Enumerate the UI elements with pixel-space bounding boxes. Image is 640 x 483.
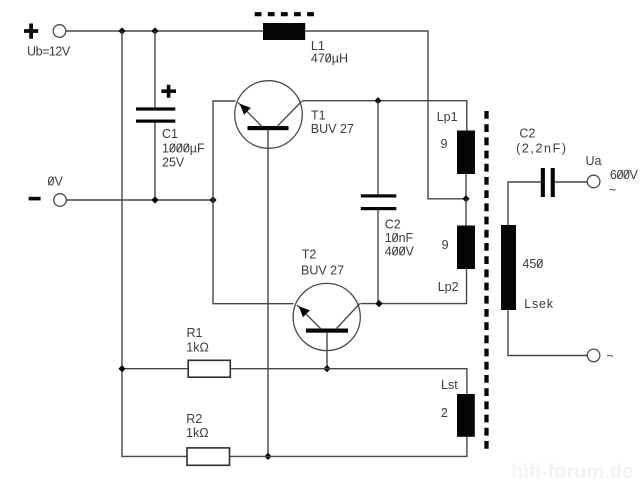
svg-text:9: 9 (441, 137, 448, 151)
svg-text:Ua: Ua (586, 154, 602, 168)
junction C1 / +rail (151, 27, 158, 34)
svg-text:hifi-forum.de: hifi-forum.de (511, 461, 633, 483)
resistor R1 (188, 360, 230, 377)
svg-text:Ub=12V: Ub=12V (27, 45, 71, 59)
svg-text:BUV 27: BUV 27 (311, 122, 354, 136)
capacitor C2 bottom lead (377, 210, 379, 304)
junction center tap (462, 195, 469, 202)
svg-text:2: 2 (441, 406, 448, 420)
wire top rail (66, 30, 263, 32)
wire Lp2 to T2 collector (360, 269, 466, 304)
junction T1 base / R2 rail (264, 453, 271, 460)
junction emitter rail / 0V rail (209, 196, 216, 203)
capacitor C1 plates (136, 107, 175, 110)
junction T2 collector / C2 (375, 300, 382, 307)
transformer winding Lsek (501, 225, 516, 310)
resistor R2 (187, 448, 230, 465)
svg-text:C1: C1 (162, 127, 178, 141)
junction T2 base / R1 wire (323, 365, 330, 372)
svg-text:Lst: Lst (441, 378, 458, 392)
capacitor C1 top lead (154, 31, 156, 108)
wire Lsek bottom lead (508, 310, 587, 356)
minus symbol (29, 197, 41, 201)
svg-text:C2: C2 (385, 218, 401, 232)
terminal 0V (54, 194, 67, 207)
capacitor C2 top lead (377, 101, 379, 195)
svg-text:R1: R1 (187, 326, 203, 340)
capacitor C1 bottom lead (154, 123, 156, 201)
transformer core (484, 111, 488, 452)
capacitor C2 plates (361, 194, 397, 197)
transistor T1 (235, 81, 303, 149)
svg-text:400V: 400V (385, 245, 415, 259)
wire bias rail (122, 31, 188, 456)
terminal Ua (587, 175, 600, 188)
wire Lsek top lead (508, 182, 541, 225)
wire center tap to Lp2 (465, 199, 467, 226)
wire L1 to transformer center tap (305, 31, 466, 199)
wire 0V rail (67, 199, 214, 201)
transformer winding Lst (457, 394, 475, 437)
inductor L1 body (263, 23, 305, 40)
wire Lp1 to center tap (465, 174, 467, 199)
svg-text:C2: C2 (519, 127, 535, 141)
svg-text:Lp1: Lp1 (437, 110, 458, 124)
terminal secondary lower (587, 349, 600, 362)
wire emitter rail (213, 101, 294, 304)
capacitor C2 secondary plates (541, 168, 545, 197)
svg-text:600V: 600V (610, 168, 639, 182)
svg-text:450: 450 (522, 257, 543, 271)
inductor L1 core dashes (255, 12, 316, 16)
svg-text:10nF: 10nF (385, 231, 414, 245)
svg-text:(2,2nF): (2,2nF) (516, 141, 568, 155)
wire R2 to Lst bottom (230, 437, 467, 457)
junction collector / C2 (374, 97, 381, 104)
svg-text:~: ~ (609, 183, 616, 197)
wire T2 base (326, 333, 328, 369)
svg-text:R2: R2 (186, 412, 202, 426)
svg-text:1000µF: 1000µF (162, 141, 205, 155)
transformer winding Lp1 (457, 131, 475, 175)
transformer winding Lp2 (457, 226, 475, 270)
svg-text:~: ~ (606, 349, 613, 363)
wire C2 to terminal Ua (555, 181, 587, 183)
svg-text:T1: T1 (311, 109, 326, 123)
svg-text:25V: 25V (162, 156, 185, 170)
plus symbol C1 (161, 85, 176, 98)
svg-text:BUV 27: BUV 27 (301, 264, 344, 278)
transistor T2 (293, 283, 360, 350)
svg-text:470µH: 470µH (311, 52, 348, 66)
wire R1 left lead (122, 368, 189, 370)
svg-text:1kΩ: 1kΩ (186, 341, 209, 355)
svg-text:0V: 0V (48, 175, 64, 189)
junction bias rail / +rail (118, 27, 125, 34)
junction C1 / 0V rail (151, 196, 158, 203)
wire T1 base to R2 rail (267, 130, 269, 456)
terminal Ub +12V (53, 25, 66, 38)
svg-text:1kΩ: 1kΩ (186, 426, 209, 440)
wire R1 to Lst top (230, 369, 467, 394)
svg-text:T2: T2 (302, 248, 317, 262)
junction bias rail / R1 (118, 365, 125, 372)
svg-text:9: 9 (442, 238, 449, 252)
wire T1 collector to Lp1 (302, 101, 467, 131)
plus symbol Ub (24, 24, 38, 39)
svg-text:Lsek: Lsek (524, 297, 554, 311)
svg-text:Lp2: Lp2 (438, 280, 459, 294)
